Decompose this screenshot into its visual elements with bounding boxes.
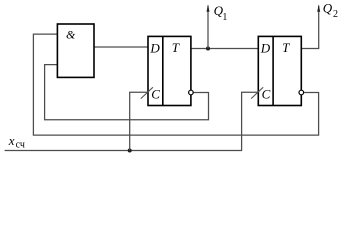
svg-text:C: C bbox=[262, 86, 271, 101]
svg-text:сч: сч bbox=[16, 140, 25, 151]
inversion bubble FF2 bbox=[299, 90, 304, 95]
arrowhead Q2 bbox=[317, 5, 320, 12]
arrowhead Q1 bbox=[207, 5, 210, 12]
svg-text:Q: Q bbox=[323, 1, 333, 16]
dynamic input slash FF2 bbox=[251, 87, 263, 98]
inversion bubble FF1 bbox=[189, 90, 194, 95]
svg-text:1: 1 bbox=[222, 12, 227, 23]
svg-text:x: x bbox=[8, 133, 15, 148]
wire: FF2 inverted output feedback to AND input 1 bbox=[33, 34, 318, 135]
svg-text:D: D bbox=[149, 40, 160, 55]
svg-text:T: T bbox=[282, 40, 290, 55]
wire: FF1 inverted output feedback to AND input 2 bbox=[45, 65, 209, 120]
flip-flop DD2 (left D/T trigger) bbox=[148, 36, 191, 105]
svg-text:T: T bbox=[172, 40, 180, 55]
AND gate DD1 bbox=[57, 24, 94, 77]
svg-text:C: C bbox=[151, 86, 160, 101]
wire: FF2 T output up to Q2 bbox=[301, 6, 318, 49]
dynamic input slash FF1 bbox=[141, 87, 153, 98]
flip-flop DD3 (right D/T trigger) bbox=[258, 36, 301, 105]
svg-text:&: & bbox=[66, 28, 76, 42]
node: junction dot on Q1 tap bbox=[206, 47, 210, 51]
svg-text:2: 2 bbox=[333, 9, 338, 20]
wire: FF1 T output to FF2 D input bbox=[191, 48, 258, 50]
node: junction dot on x_sch line bbox=[128, 149, 132, 153]
wire: x_sch input line along bottom bbox=[5, 92, 259, 150]
wire: Q1 vertical riser bbox=[207, 6, 209, 49]
wire: tap up to FF1 C input bbox=[130, 92, 148, 150]
svg-text:D: D bbox=[260, 40, 271, 55]
wire: AND output to FF1 D input bbox=[94, 46, 148, 48]
